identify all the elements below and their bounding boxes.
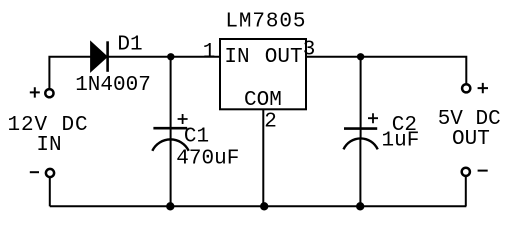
wire C2 down to ground rail	[359, 138, 361, 206]
svg-text:LM7805: LM7805	[225, 10, 306, 33]
minus sign input	[30, 171, 39, 173]
svg-text:1uF: 1uF	[381, 130, 419, 153]
node A junction dot	[167, 53, 174, 60]
terminal +5V output	[462, 84, 470, 92]
capacitor C1	[152, 128, 188, 151]
svg-text:1N4007: 1N4007	[75, 74, 151, 97]
svg-text:COM: COM	[244, 89, 282, 112]
svg-text:1: 1	[203, 41, 216, 64]
diode D1	[91, 41, 108, 72]
svg-text:D1: D1	[117, 34, 142, 57]
wire node A to pin 1 of U1	[171, 56, 220, 58]
wire -5V terminal down to ground rail	[465, 177, 467, 206]
ground rail bottom wire	[50, 205, 467, 207]
capacitor C2	[344, 129, 378, 150]
terminal -12V input	[46, 169, 54, 177]
wire pin 3 to output corner and down to +5V terminal	[306, 57, 466, 84]
junction dot COM/rail	[260, 202, 268, 210]
wire C1 down to ground rail	[170, 140, 172, 206]
svg-text:3: 3	[303, 38, 316, 61]
wire COM pin 2 down to ground rail	[262, 109, 264, 206]
terminal -5V output	[462, 168, 470, 176]
svg-text:IN: IN	[224, 46, 249, 69]
C2 polarity plus	[368, 113, 378, 123]
svg-text:470uF: 470uF	[176, 148, 239, 171]
wire -12V terminal down to ground rail	[49, 178, 51, 206]
wire node B down to capacitor C2	[360, 57, 362, 138]
svg-text:IN: IN	[36, 134, 61, 157]
svg-text:2: 2	[264, 111, 277, 134]
svg-text:C1: C1	[184, 126, 209, 149]
plus sign input	[30, 87, 40, 97]
junction dot C1/rail	[166, 202, 174, 210]
junction dot C2/rail	[356, 202, 364, 210]
wire node A down to capacitor C1	[170, 57, 172, 139]
wire diode cathode to node A	[108, 56, 171, 58]
node B junction dot	[357, 53, 364, 60]
C1 polarity plus	[178, 114, 188, 124]
svg-text:OUT: OUT	[265, 46, 303, 69]
op-amp U1 LM7805 regulator body	[220, 39, 306, 109]
plus sign output	[478, 83, 488, 93]
terminal +12V input	[45, 89, 53, 97]
minus sign output	[478, 170, 488, 172]
svg-text:OUT: OUT	[452, 128, 490, 151]
wire top-left from +12V terminal up and right to diode anode	[49, 57, 90, 89]
